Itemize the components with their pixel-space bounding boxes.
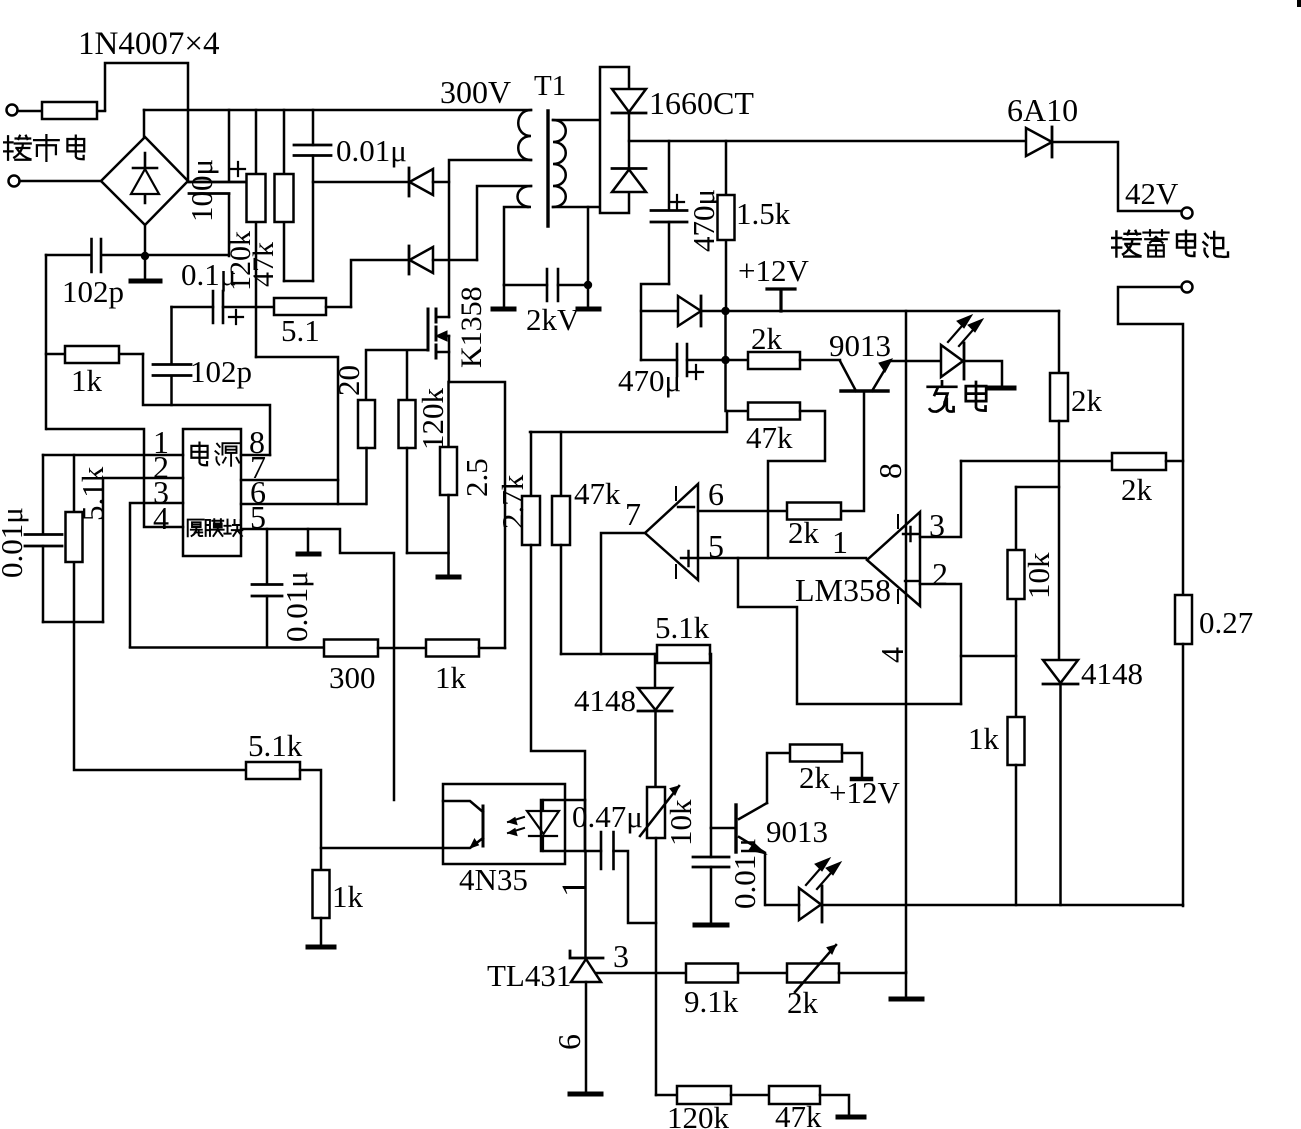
capacitor 0.01u left xyxy=(25,455,62,622)
capacitor 0.01u top xyxy=(294,110,331,281)
svg-text:2kV: 2kV xyxy=(526,302,580,337)
terminal J1 mains top xyxy=(7,105,18,116)
wire module pin4 loop xyxy=(47,429,183,527)
wire module pin3 xyxy=(130,503,183,647)
wire 120k top feed xyxy=(256,357,338,504)
svg-text:2.7k: 2.7k xyxy=(495,474,530,529)
LED D6 charge xyxy=(941,315,1002,387)
wire output bus xyxy=(629,140,1026,143)
T1 core xyxy=(546,111,549,226)
svg-text:5.1k: 5.1k xyxy=(655,610,710,645)
resistor 47k vert xyxy=(552,432,570,654)
resistor 47k feedback xyxy=(727,403,825,559)
diode D8 4148 left xyxy=(638,654,672,787)
resistor 120k bottom xyxy=(677,1086,769,1104)
LED D9 discharge xyxy=(799,858,841,922)
capacitor 470u second xyxy=(641,344,725,376)
wire follower loop xyxy=(738,558,961,704)
svg-text:9013: 9013 xyxy=(829,328,891,363)
label jiexudianchi (connect battery) xyxy=(1112,230,1228,257)
wire 1.5k to 470u2 node xyxy=(724,311,727,360)
svg-text:102p: 102p xyxy=(62,274,124,309)
1660CT diode upper xyxy=(612,89,646,112)
potentiometer 10k xyxy=(640,786,679,1095)
wire supply rail x906 xyxy=(905,311,908,972)
capacitor 102p top xyxy=(92,239,102,272)
svg-text:4: 4 xyxy=(874,647,910,663)
resistor 120k top xyxy=(247,110,266,357)
resistor 5.1k mid xyxy=(657,645,711,828)
ground 1k bottom left xyxy=(320,918,323,946)
label jieshidian (connect mains) xyxy=(4,135,84,161)
svg-text:0.27: 0.27 xyxy=(1199,605,1253,640)
wire output to battery terminal xyxy=(1052,142,1181,211)
svg-text:42V: 42V xyxy=(1125,176,1179,211)
wire row 654 xyxy=(561,653,657,656)
optocoupler U3 4N35 xyxy=(443,784,585,864)
wire emitter to LED row xyxy=(890,360,941,363)
svg-text:47k: 47k xyxy=(775,1099,822,1129)
resistor 47k top xyxy=(275,110,294,281)
svg-text:0.01μ: 0.01μ xyxy=(0,507,29,578)
wire riser to primary lower xyxy=(477,186,531,260)
label chongdian (charging) xyxy=(928,381,986,411)
wire secondary top to 1660CT xyxy=(553,119,600,122)
svg-text:1660CT: 1660CT xyxy=(649,85,754,121)
node bridge negative xyxy=(141,252,149,260)
ground TL431 xyxy=(570,1092,601,1097)
resistor 2k collector xyxy=(767,745,862,804)
terminal J2 mains bottom xyxy=(9,176,20,187)
wire module pin2 xyxy=(103,478,183,622)
regulator U4 TL431 xyxy=(570,951,686,1094)
svg-text:2k: 2k xyxy=(751,321,783,356)
svg-text:4148: 4148 xyxy=(1081,656,1143,691)
scan artifact top right xyxy=(1297,0,1301,7)
svg-text:47k: 47k xyxy=(746,420,793,455)
svg-text:2k: 2k xyxy=(1121,472,1153,507)
capacitor 0.47u xyxy=(601,832,614,869)
svg-text:4: 4 xyxy=(153,500,169,536)
diode D4 6A10 xyxy=(1026,127,1052,157)
svg-text:0.1μ: 0.1μ xyxy=(181,257,236,292)
svg-text:0.01μ: 0.01μ xyxy=(336,133,407,168)
svg-text:3: 3 xyxy=(613,938,629,974)
resistor 5.1k bottom xyxy=(246,762,321,870)
module U2 power thick film xyxy=(183,429,241,556)
T1 primary upper winding xyxy=(518,110,531,160)
ground x906 xyxy=(905,972,908,998)
svg-text:47k: 47k xyxy=(574,476,621,511)
wire 120k2 to 2.5 bottom xyxy=(407,552,448,555)
wire gate row xyxy=(366,350,428,400)
svg-text:1N4007×4: 1N4007×4 xyxy=(78,26,219,62)
svg-text:47k: 47k xyxy=(247,242,280,287)
resistor 10k comp xyxy=(1008,487,1025,717)
svg-text:9.1k: 9.1k xyxy=(684,984,739,1019)
svg-text:5.1k: 5.1k xyxy=(75,466,110,521)
resistor 9.1k xyxy=(686,964,787,983)
svg-text:5.1k: 5.1k xyxy=(248,728,303,763)
wire base down to 2k xyxy=(841,391,864,511)
wire rail 647 xyxy=(130,646,324,649)
transistor Q3 K1358 MOSFET xyxy=(428,309,449,382)
resistor 1k top xyxy=(46,346,143,363)
resistor 2k base xyxy=(725,352,840,369)
wire pin2 riser xyxy=(920,584,961,704)
wire left column x46 xyxy=(45,255,48,429)
svg-text:4N35: 4N35 xyxy=(459,862,528,897)
svg-text:+12V: +12V xyxy=(829,775,900,810)
potentiometer 2k xyxy=(787,945,906,992)
wire primary lower exit xyxy=(504,207,528,285)
wire 10k bottom link xyxy=(961,655,1016,658)
T1 secondary winding xyxy=(553,120,566,207)
svg-text:2k: 2k xyxy=(787,985,819,1020)
capacitor 0.01u pin5 xyxy=(252,529,282,647)
wire op2 output pin7 xyxy=(601,533,645,654)
wire pin6 row xyxy=(698,510,787,513)
resistor 2.7k xyxy=(522,432,585,800)
wire 470u1 bottom jog xyxy=(641,284,669,360)
wire module pin7 xyxy=(241,479,338,482)
svg-text:102p: 102p xyxy=(190,354,252,389)
4N35 phototransistor xyxy=(482,806,485,846)
wire ref row bottom xyxy=(656,1094,677,1097)
svg-text:1.5k: 1.5k xyxy=(736,196,791,231)
wire left bottom link xyxy=(43,622,246,770)
diode D3 snubber lower xyxy=(409,246,477,274)
transistor Q2 9013 xyxy=(711,803,767,905)
svg-text:10k: 10k xyxy=(663,799,698,846)
svg-text:2k: 2k xyxy=(788,515,820,550)
wire feedback 47k node xyxy=(724,360,727,411)
svg-text:6: 6 xyxy=(708,476,724,512)
svg-text:1k: 1k xyxy=(435,660,467,695)
wire top bus to transformer xyxy=(144,109,531,112)
wire pin5 to op1 output row xyxy=(698,557,866,560)
wire center tap riser xyxy=(587,207,590,285)
op-amp U1A LM358 xyxy=(867,512,920,606)
label 470u plus xyxy=(670,195,684,209)
resistor 47k bottom xyxy=(769,1086,849,1116)
wire to bridge left xyxy=(20,180,102,183)
svg-text:100μ: 100μ xyxy=(184,159,219,222)
node diode 1.5k junction xyxy=(721,307,729,315)
capacitor 100u xyxy=(189,110,246,256)
node 470u2 junction xyxy=(721,356,729,364)
svg-text:K1358: K1358 xyxy=(455,286,488,368)
svg-text:TL431: TL431 xyxy=(487,958,571,993)
label houmokuai (thick film block) xyxy=(188,519,243,536)
svg-text:2.5: 2.5 xyxy=(459,458,494,497)
wire lower rail left xyxy=(46,254,229,257)
capacitor 0.01u base xyxy=(693,828,729,924)
transistor Q1 9013 xyxy=(840,359,892,391)
op-amp U1B LM358 xyxy=(645,484,698,580)
diode D2 snubber upper xyxy=(313,168,449,196)
resistor 120k second xyxy=(399,400,416,553)
label 0.1u plus xyxy=(229,310,243,324)
wire module pin1 xyxy=(43,454,183,457)
4N35 led compartment xyxy=(541,800,585,851)
resistor 5.1 xyxy=(274,298,351,315)
label dianyuan (power) xyxy=(191,443,239,466)
svg-text:LM358: LM358 xyxy=(795,572,891,608)
ground 47k bottom xyxy=(838,1115,864,1120)
rectifier module 1660CT xyxy=(600,67,646,213)
svg-text:2k: 2k xyxy=(799,760,831,795)
capacitor 470u first xyxy=(651,141,687,284)
svg-text:0.01μ: 0.01μ xyxy=(279,571,314,642)
resistor 2.5 xyxy=(440,382,457,553)
svg-text:470μ: 470μ xyxy=(686,189,721,252)
terminal J4 battery minus xyxy=(1182,282,1193,293)
resistor 2k LED pullup xyxy=(1050,373,1068,660)
wire sense row y461 xyxy=(961,460,1112,463)
svg-text:120k: 120k xyxy=(415,388,450,451)
wire 1k right riser to rail405 xyxy=(143,354,270,455)
svg-text:4148: 4148 xyxy=(574,683,636,718)
bridge rectifier D1 1N4007x4 xyxy=(101,137,188,225)
wire 5.1 to diode row2 xyxy=(351,260,408,307)
wire 47k node down xyxy=(530,411,727,432)
svg-text:2: 2 xyxy=(932,556,948,592)
svg-text:7: 7 xyxy=(625,496,641,532)
resistor 1k mid xyxy=(426,640,505,657)
svg-text:1k: 1k xyxy=(71,363,103,398)
ground pin5 xyxy=(307,529,310,553)
resistor 2k pin6 xyxy=(787,503,841,520)
1660CT diode lower xyxy=(612,167,646,170)
svg-text:5.1: 5.1 xyxy=(281,313,320,348)
ground bar under bridge xyxy=(144,256,147,280)
wire snubber vertical x449 xyxy=(449,160,531,317)
power tap +12V top xyxy=(767,289,795,311)
svg-text:1k: 1k xyxy=(332,879,364,914)
wire pin3 riser xyxy=(920,461,961,537)
resistor 1.5k xyxy=(718,141,735,311)
wire module pin8 xyxy=(241,454,270,457)
svg-text:0.47μ: 0.47μ xyxy=(572,799,643,834)
ground source divider xyxy=(447,553,450,576)
ground left of 2kV xyxy=(503,285,506,308)
fuse F1 xyxy=(18,102,106,119)
wire emitter row xyxy=(321,847,443,850)
svg-text:0.01μ: 0.01μ xyxy=(727,838,762,909)
wire 47k bottom jog xyxy=(284,280,313,283)
svg-text:+12V: +12V xyxy=(738,253,809,288)
wire bridge top to bus xyxy=(143,110,146,137)
resistor 300 xyxy=(324,640,426,657)
resistor 20 xyxy=(358,400,375,504)
svg-text:6A10: 6A10 xyxy=(1007,92,1078,128)
resistor 1k bottom left xyxy=(313,870,330,918)
svg-text:T1: T1 xyxy=(534,70,566,102)
ground right of 2kV xyxy=(587,285,590,308)
4N35 led xyxy=(527,800,559,851)
node 2kV junction xyxy=(584,281,592,289)
svg-text:20: 20 xyxy=(331,365,366,396)
wire 0.47u row xyxy=(585,851,656,923)
capacitor 102p bottom xyxy=(153,307,191,405)
wire rail 12V right drop xyxy=(1058,311,1061,373)
wire bypass loop over bridge xyxy=(105,63,188,181)
svg-text:300: 300 xyxy=(329,660,376,695)
diode D7 4148 right xyxy=(1043,660,1078,905)
svg-text:120k: 120k xyxy=(667,1100,730,1129)
capacitor 2kV xyxy=(504,269,588,301)
svg-text:470μ: 470μ xyxy=(618,363,681,398)
resistor 0.27 xyxy=(1175,595,1192,906)
power tap +12V bottom xyxy=(852,777,871,782)
wire TL431 cathode xyxy=(584,800,587,958)
transformer T1 xyxy=(518,110,566,226)
wire secondary bottom to 1660CT xyxy=(553,206,600,209)
label 470u2 plus xyxy=(689,365,703,379)
svg-text:1: 1 xyxy=(832,524,848,560)
label 100u plus xyxy=(231,162,245,176)
wire battery minus down right edge xyxy=(1118,287,1183,595)
wire bottom rail 905 xyxy=(766,904,1183,907)
svg-text:1k: 1k xyxy=(968,721,1000,756)
wire module pin6 xyxy=(241,503,366,506)
ground 0.01u base xyxy=(695,923,727,928)
wire 10k branch xyxy=(1016,486,1059,489)
capacitor 0.1u xyxy=(172,291,275,323)
svg-text:8: 8 xyxy=(872,463,908,479)
wire module pin5 xyxy=(241,529,394,800)
T1 primary lower winding xyxy=(518,186,532,207)
resistor 2k sense xyxy=(1112,453,1183,470)
wire bridge bottom xyxy=(144,225,147,256)
svg-text:9013: 9013 xyxy=(766,814,828,849)
svg-text:6: 6 xyxy=(551,1034,587,1050)
ground LED charge xyxy=(990,386,1014,391)
resistor 1k comp xyxy=(1008,717,1025,905)
wire source sense xyxy=(449,382,505,648)
svg-text:1: 1 xyxy=(554,879,594,897)
terminal J3 battery plus xyxy=(1182,208,1193,219)
diode D5 12V rect xyxy=(641,296,1059,326)
svg-text:10k: 10k xyxy=(1021,552,1056,599)
resistor 5.1k left xyxy=(66,455,83,622)
svg-text:2k: 2k xyxy=(1071,383,1103,418)
svg-text:300V: 300V xyxy=(440,74,511,110)
